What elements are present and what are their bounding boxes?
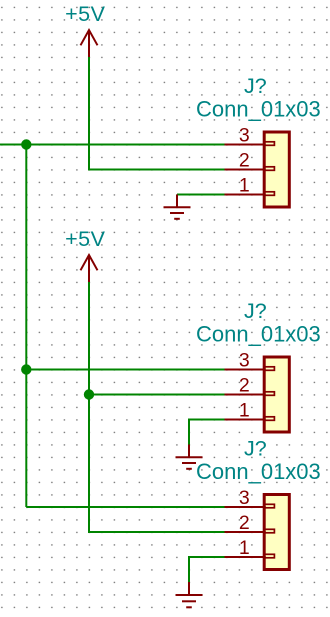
wire horizontal to J2 pin2 <box>89 394 225 396</box>
svg-text:2: 2 <box>239 375 250 397</box>
connector J2 pin 1 <box>225 417 275 421</box>
junction at (26,369) <box>21 364 31 374</box>
svg-text:+5V: +5V <box>65 2 106 26</box>
wire from PWR2 down to junction <box>88 282 90 395</box>
junction at (26,144) <box>21 139 31 149</box>
svg-text:J?: J? <box>244 299 267 323</box>
wire J1 pin1 to ground <box>177 194 225 196</box>
junction at (89,394) <box>84 389 94 399</box>
connector J1 value Conn_01x03 <box>196 97 321 122</box>
connector J1 pin number 3 <box>239 125 250 147</box>
connector J2 value Conn_01x03 <box>196 322 321 347</box>
connector J1 pin 3 <box>225 142 275 146</box>
connector J1 body <box>264 132 289 207</box>
svg-text:Conn_01x03: Conn_01x03 <box>196 459 321 484</box>
svg-text:Conn_01x03: Conn_01x03 <box>196 97 321 122</box>
wire from PWR1 to J1 pin2 <box>89 57 225 170</box>
svg-text:1: 1 <box>239 537 250 559</box>
wire J2 pin1 to ground <box>189 420 225 445</box>
connector J2 pin number 2 <box>239 375 250 397</box>
connector J3 pin 1 <box>225 554 275 558</box>
connector J1 pin 1 <box>225 192 275 196</box>
connector J2 body <box>264 357 289 432</box>
svg-text:1: 1 <box>239 400 250 422</box>
connector J3 value Conn_01x03 <box>196 459 321 484</box>
svg-text:J?: J? <box>244 74 267 98</box>
connector J3 pin number 3 <box>239 487 250 509</box>
connector J1 pin number 2 <box>239 150 250 172</box>
connector J3 reference J? <box>244 437 267 461</box>
connector J3 pin 2 <box>225 529 275 533</box>
svg-text:1: 1 <box>239 175 250 197</box>
connector J3 pin number 1 <box>239 537 250 559</box>
svg-text:+5V: +5V <box>65 227 106 251</box>
connector J1 pin 2 <box>225 167 275 171</box>
ground GND2 <box>176 445 203 469</box>
ground GND1 <box>164 195 191 219</box>
ground GND3 <box>176 582 203 607</box>
wire J3 pin1 to ground <box>189 557 225 582</box>
connector J2 reference J? <box>244 299 267 323</box>
svg-text:J?: J? <box>244 437 267 461</box>
wire left vertical bus x=26 <box>25 145 27 508</box>
connector J2 pin 2 <box>225 392 275 396</box>
svg-text:3: 3 <box>239 350 250 372</box>
wire from junction down and to J3 pin2 <box>89 395 225 533</box>
wire top horizontal net to J1 pin3 <box>0 144 225 146</box>
connector J2 pin number 3 <box>239 350 250 372</box>
connector J3 body <box>264 495 289 570</box>
power +5V PWR1 label <box>65 2 106 26</box>
wire horizontal to J3 pin3 <box>26 506 224 508</box>
connector J2 pin number 1 <box>239 400 250 422</box>
svg-text:Conn_01x03: Conn_01x03 <box>196 322 321 347</box>
svg-text:3: 3 <box>239 125 250 147</box>
svg-text:3: 3 <box>239 487 250 509</box>
power +5V PWR2 label <box>65 227 106 251</box>
connector J1 pin number 1 <box>239 175 250 197</box>
power +5V symbol PWR1 arrow <box>81 30 98 57</box>
power +5V symbol PWR2 arrow <box>81 255 98 282</box>
svg-text:2: 2 <box>239 512 250 534</box>
wire horizontal to J2 pin3 <box>26 369 224 371</box>
connector J3 pin 3 <box>225 504 275 508</box>
connector J3 pin number 2 <box>239 512 250 534</box>
connector J2 pin 3 <box>225 367 275 371</box>
svg-text:2: 2 <box>239 150 250 172</box>
connector J1 reference J? <box>244 74 267 98</box>
